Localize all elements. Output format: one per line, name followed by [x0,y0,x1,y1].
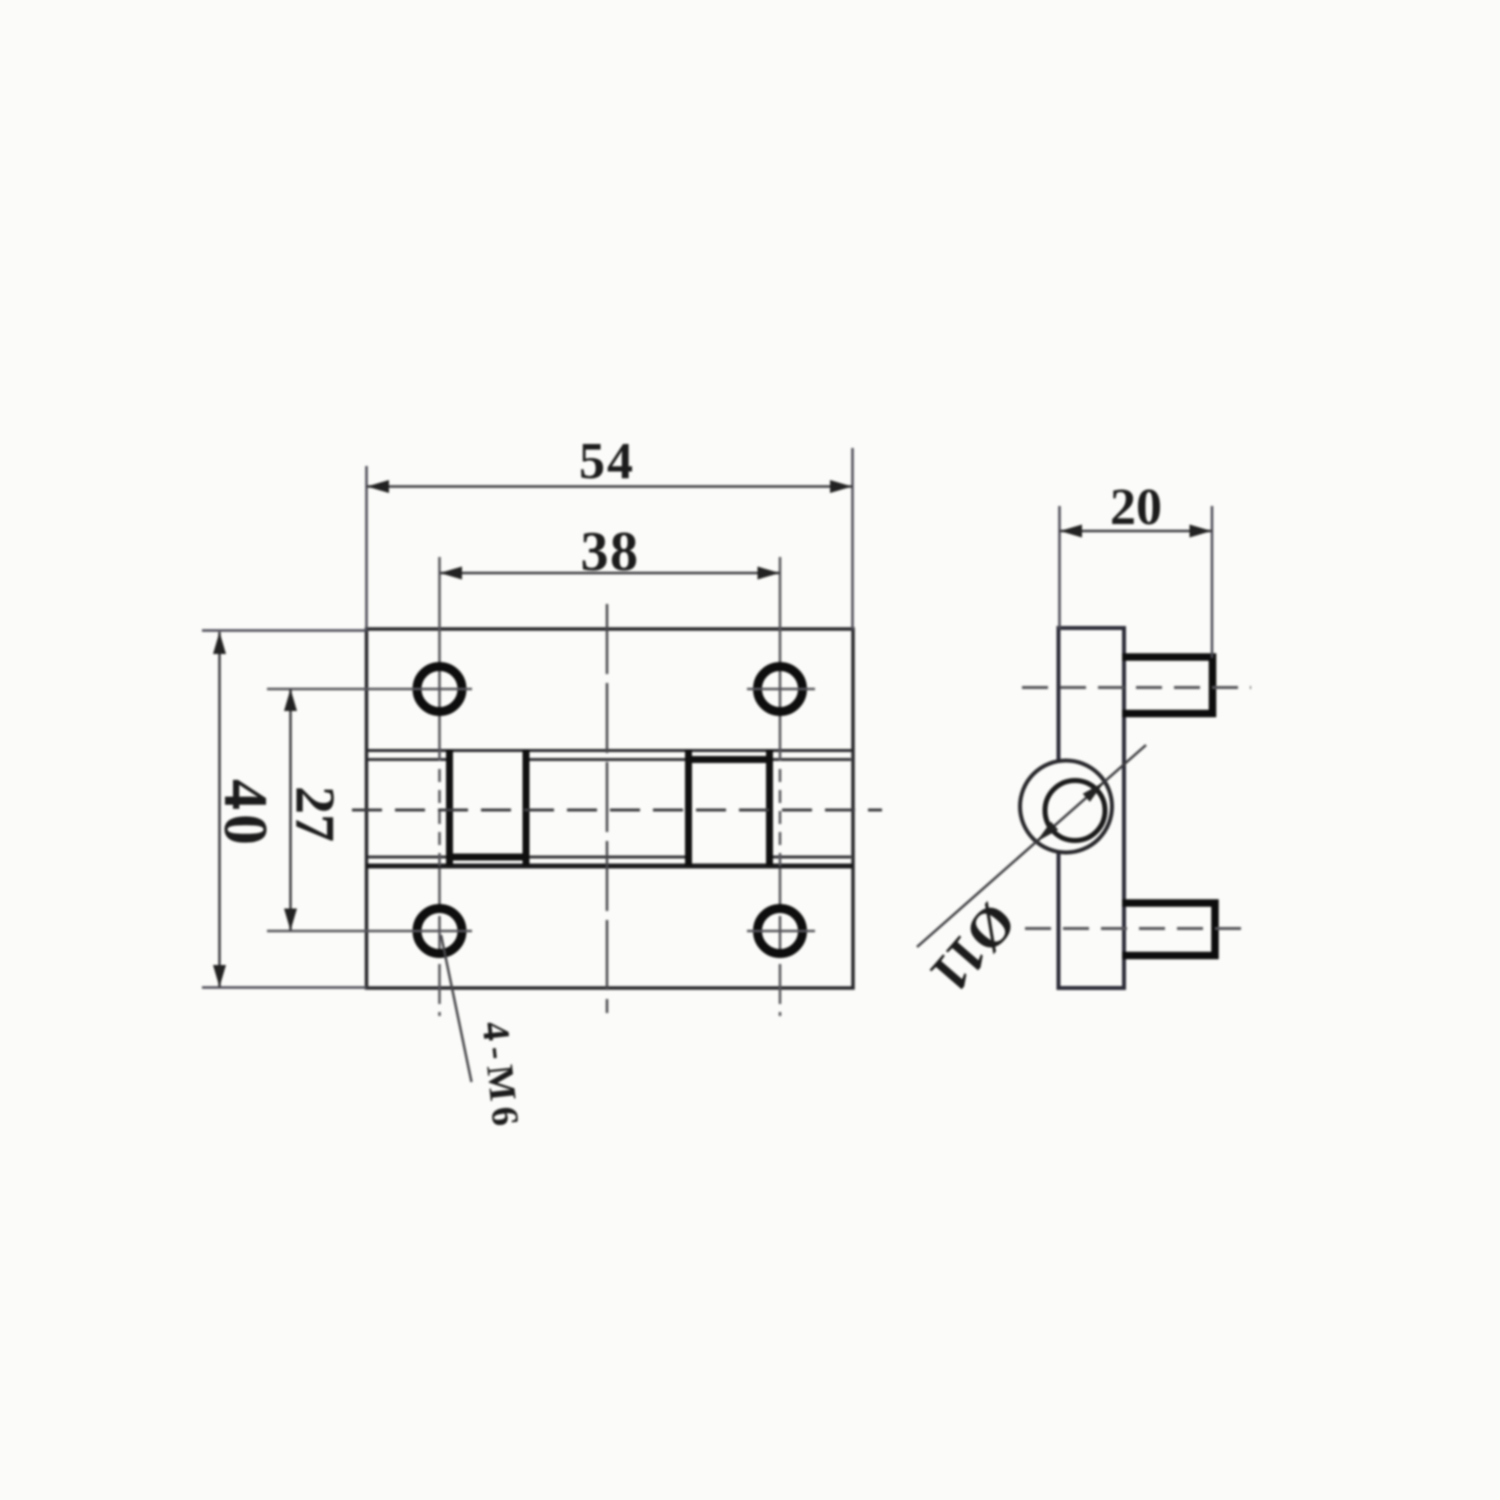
dimension 38 arrow right [758,567,780,580]
dimension 40 arrow top [213,632,226,654]
knuckle segment K2 [686,750,772,866]
knuckle band inner bottom line segments [368,856,851,859]
band horizontal dashed center line [352,809,882,812]
plate vertical center line [606,604,609,1013]
svg-text:54: 54 [579,433,635,490]
svg-text:20: 20 [1110,479,1162,536]
dimension 27 arrow top [284,689,297,711]
phi11 arrow lower-left [1037,822,1059,842]
hole center line right column [779,557,782,1016]
dimension 20 line [1060,530,1212,533]
knuckle segment K1 [447,750,528,866]
side view plate strip [1059,628,1125,988]
hole bottom-left [417,909,462,954]
lower pin dashed center line [1025,927,1253,930]
hole bottom-right [758,909,803,954]
svg-text:27: 27 [284,786,346,842]
knuckle band top line [366,749,853,752]
svg-text:4-M6: 4-M6 [474,1019,527,1133]
dimension 38 arrow left [440,567,462,580]
dimension 54 arrow right [830,480,852,493]
dimension 38 line [440,572,780,575]
upper pin [1122,657,1213,714]
dimension 54 extension line right [851,448,854,630]
dimension 40 line [218,632,221,987]
dimension 40 extension line bottom [202,986,367,989]
knuckle band inner top line segments [368,758,851,761]
phi11 arrow upper-right [1083,782,1105,802]
dimension 20 extension line right [1211,506,1214,658]
dimension 20 arrow right [1190,525,1212,538]
hole center line left column [438,557,441,1016]
dimension 27 line [289,689,292,931]
upper pin dashed center line [1022,686,1251,689]
dimension 20 extension line left [1058,506,1061,629]
knuckle band bottom line [366,864,853,869]
hole center horizontal line bottom-left / dim 27 extension bottom [267,930,472,933]
svg-text:Ø11: Ø11 [918,891,1028,1004]
hole top-left [417,667,462,712]
dimension 54 line [367,485,852,488]
dimension 54 extension line left [365,466,368,630]
barrel inner circle [1045,781,1105,841]
lower pin [1122,903,1215,956]
hole center horizontal line top-right [747,688,815,691]
leader line 4-M6 [441,935,472,1082]
dimension 20 arrow left [1060,525,1082,538]
dimension 40 arrow bottom [213,965,226,987]
hole top-right [758,667,803,712]
svg-text:38: 38 [581,521,640,583]
front view plate outline [367,629,854,988]
dimension 54 arrow left [367,480,389,493]
svg-text:40: 40 [211,779,279,849]
hole center horizontal line top-left / dim 27 extension top [267,688,472,691]
hole center horizontal line bottom-right [747,930,815,933]
dimension 40 extension line top [202,629,367,632]
barrel outer circle [1020,761,1112,853]
leader line phi11 [917,745,1146,947]
dimension 27 arrow bottom [284,909,297,931]
